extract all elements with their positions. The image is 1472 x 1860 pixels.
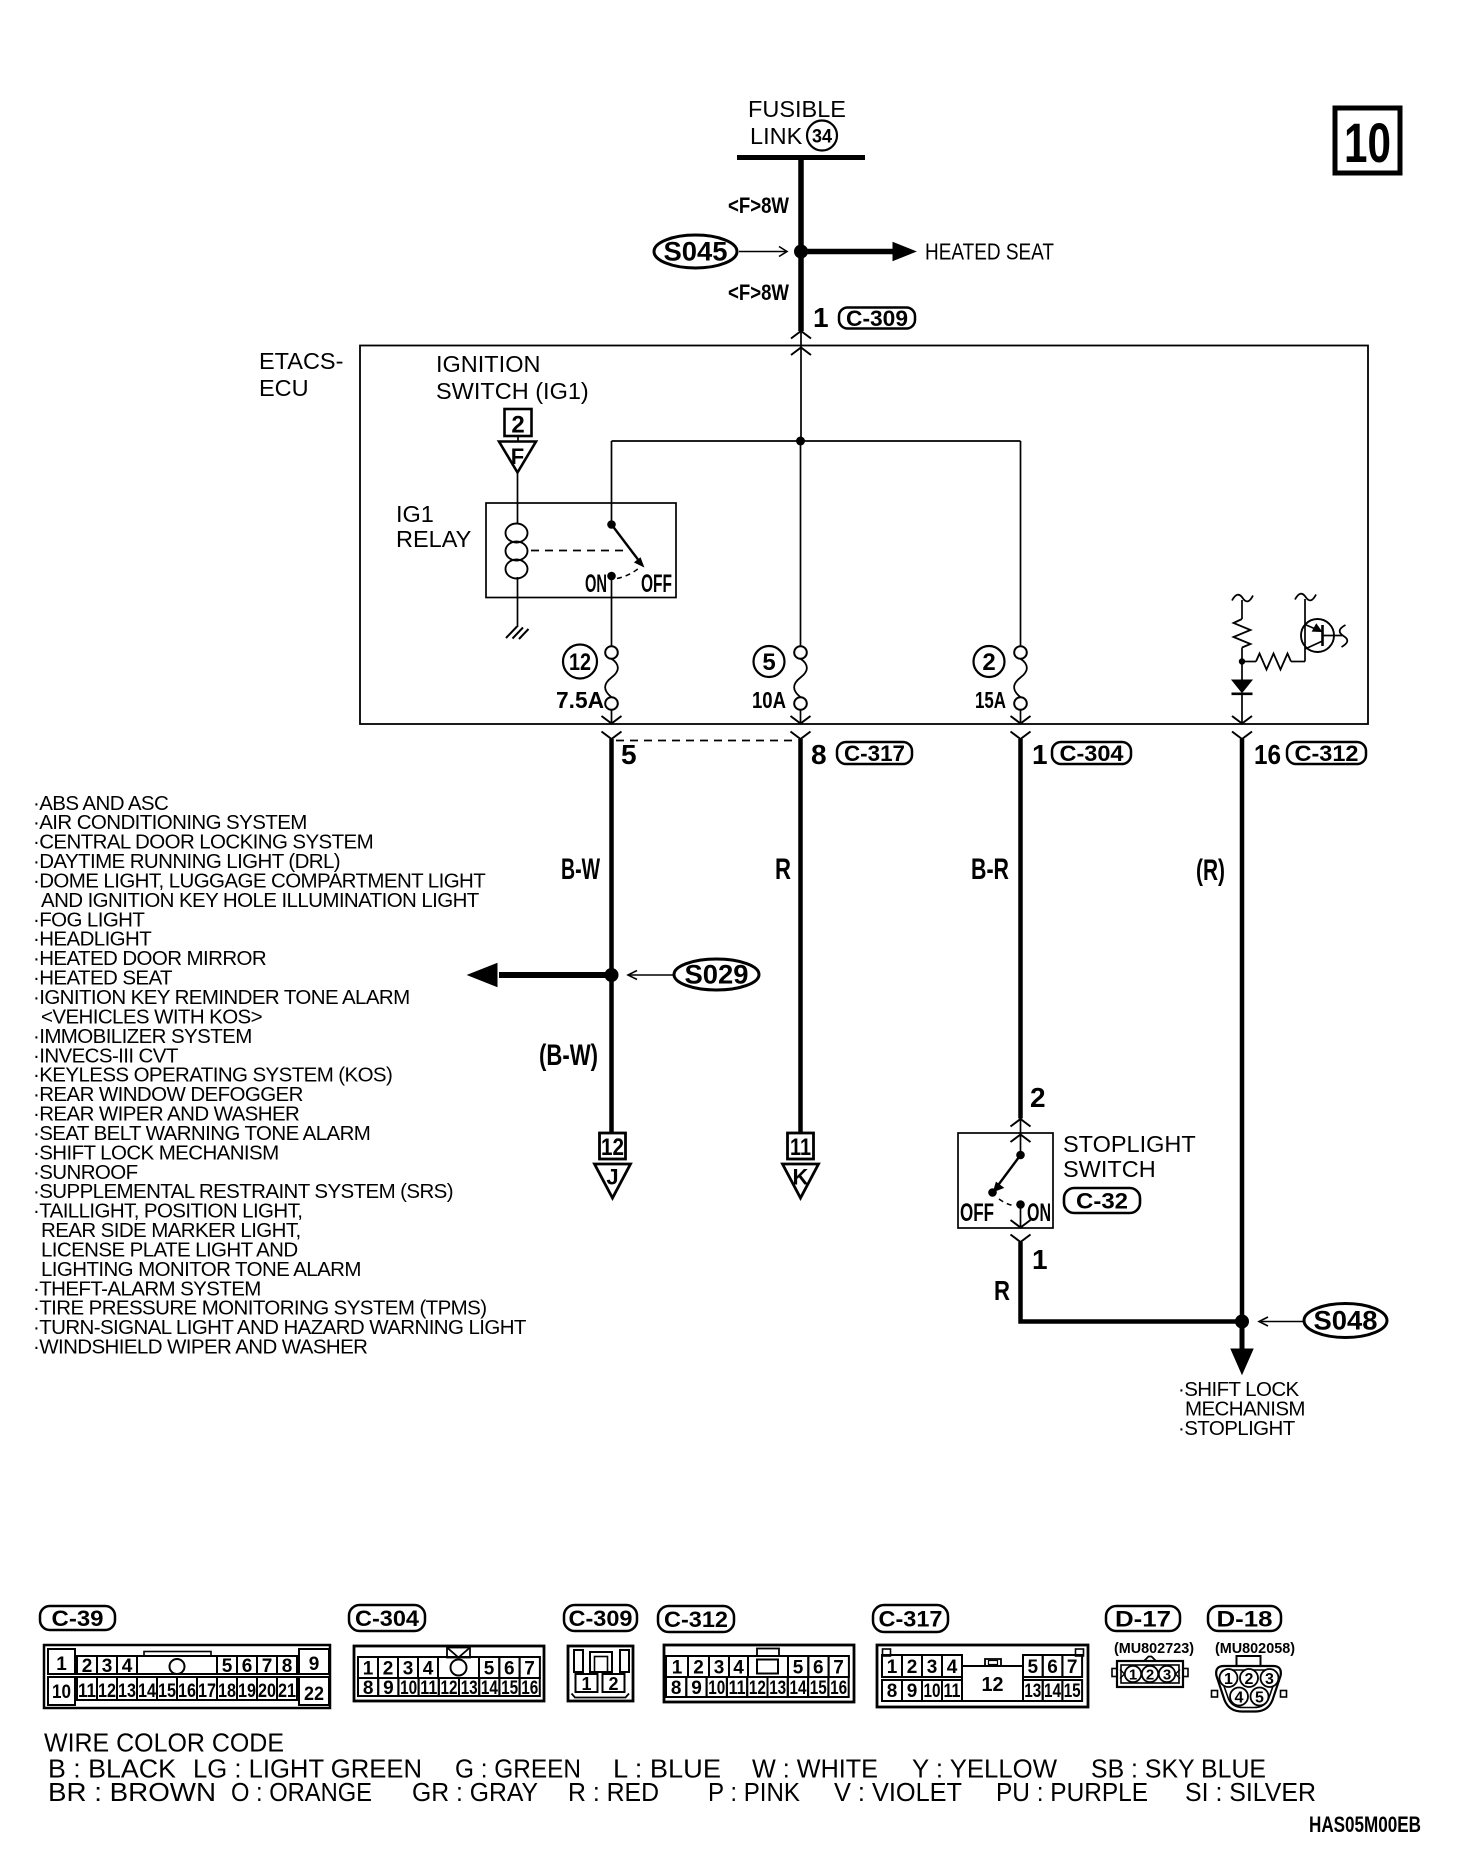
- svg-text:11: 11: [78, 1681, 96, 1702]
- svg-text:BR : BROWN: BR : BROWN: [48, 1779, 216, 1807]
- svg-text:D-17: D-17: [1115, 1606, 1171, 1631]
- transistor Q1 emitter diagonal with arrow: [1305, 625, 1319, 631]
- svg-text:OFF: OFF: [960, 1199, 994, 1227]
- splice label S029: [674, 959, 759, 990]
- svg-text:2: 2: [907, 1657, 918, 1678]
- svg-text:14: 14: [1044, 1681, 1061, 1702]
- svg-text:12: 12: [982, 1674, 1004, 1696]
- node dot base network: [1239, 658, 1245, 664]
- wire C-309 into ETACS box: [800, 331, 802, 441]
- svg-text:J: J: [606, 1165, 618, 1190]
- svg-text:6: 6: [242, 1656, 253, 1677]
- svg-text:19: 19: [238, 1681, 256, 1702]
- svg-text:3: 3: [1265, 1671, 1274, 1688]
- svg-text:15: 15: [1064, 1681, 1081, 1702]
- svg-text:S029: S029: [685, 960, 749, 990]
- connector C-317 pins 8-11: [882, 1680, 902, 1701]
- svg-text:15: 15: [501, 1678, 518, 1699]
- svg-text:RELAY: RELAY: [396, 526, 472, 552]
- connector D-17 body: [1112, 1669, 1117, 1677]
- svg-text:12: 12: [749, 1678, 766, 1699]
- relay IG1 box: [486, 503, 676, 598]
- svg-text:<F>8W: <F>8W: [728, 193, 789, 218]
- wire ON contact to pin 1: [1020, 1208, 1022, 1228]
- wire relay ON contact to fuse 12: [611, 580, 613, 647]
- svg-text:C-32: C-32: [1076, 1188, 1128, 1213]
- svg-text:(B-W): (B-W): [539, 1039, 598, 1072]
- svg-text:SI : SILVER: SI : SILVER: [1185, 1779, 1316, 1807]
- svg-text:10A: 10A: [752, 687, 786, 713]
- svg-text:ETACS-: ETACS-: [259, 348, 343, 374]
- svg-text:1: 1: [1032, 739, 1048, 770]
- arrow from S029 label to junction: [630, 974, 673, 976]
- svg-text:16: 16: [521, 1678, 538, 1699]
- svg-text:6: 6: [1047, 1657, 1058, 1678]
- fuse number circle 5: [754, 646, 785, 677]
- connector D-18 body: [1237, 1656, 1261, 1666]
- svg-text:12: 12: [601, 1134, 624, 1161]
- svg-text:12: 12: [441, 1678, 458, 1699]
- svg-text:C-309: C-309: [569, 1606, 633, 1631]
- svg-text:B-W: B-W: [561, 853, 600, 886]
- svg-text:5: 5: [1028, 1657, 1039, 1678]
- connector chevrons C-309: [791, 331, 811, 339]
- svg-text:S048: S048: [1314, 1306, 1378, 1336]
- connector C-317 pins 13-15: [1023, 1680, 1043, 1701]
- terminal box 12: [600, 1133, 626, 1159]
- connector C-309 body: [568, 1646, 633, 1701]
- svg-text:20: 20: [258, 1681, 276, 1702]
- connector chevrons stoplight switch entry: [1011, 1119, 1031, 1127]
- svg-text:8: 8: [671, 1678, 682, 1699]
- svg-text:C-304: C-304: [1060, 741, 1125, 766]
- fuse number circle 12: [563, 645, 597, 679]
- connector label C-304: [1052, 742, 1131, 764]
- wire B-R pin 1 down: [1018, 739, 1023, 1119]
- svg-text:1: 1: [1224, 1671, 1233, 1688]
- svg-text:1: 1: [56, 1654, 67, 1675]
- connector C-39 pins 11-21: [77, 1677, 97, 1700]
- svg-text:(MU802723): (MU802723): [1114, 1640, 1194, 1657]
- svg-text:9: 9: [907, 1681, 918, 1702]
- branch arrow left from splice S029: [499, 972, 612, 978]
- svg-text:<F>8W: <F>8W: [728, 280, 789, 305]
- svg-text:R : RED: R : RED: [568, 1779, 659, 1807]
- svg-text:C-304: C-304: [355, 1606, 420, 1631]
- svg-text:9: 9: [309, 1654, 320, 1675]
- fusible link bus bar: [737, 155, 865, 160]
- terminal triangle F: [517, 436, 519, 441]
- connector C-304 pins 1-4: [358, 1657, 378, 1678]
- connector chevrons stoplight switch exit: [1011, 1220, 1031, 1228]
- svg-text:3: 3: [714, 1658, 725, 1679]
- fuse 2 15A symbol: [1014, 646, 1027, 659]
- svg-text:F: F: [511, 444, 524, 469]
- svg-text:1: 1: [813, 302, 829, 333]
- connector C-304 body: [354, 1646, 544, 1701]
- svg-text:16: 16: [1254, 739, 1281, 770]
- svg-text:15: 15: [810, 1678, 827, 1699]
- svg-text:4: 4: [947, 1657, 958, 1678]
- connector C-312 label (bottom row): [658, 1606, 734, 1632]
- svg-text:C-317: C-317: [844, 741, 905, 766]
- diode D1: [1232, 680, 1252, 693]
- wire diode to pin 16: [1241, 694, 1243, 724]
- relay switch lever (OFF position): [612, 525, 639, 560]
- connector C-39 pin 22: [299, 1677, 329, 1705]
- svg-text:1: 1: [1129, 1667, 1137, 1684]
- svg-text:ECU: ECU: [259, 375, 309, 401]
- svg-text:10: 10: [1344, 111, 1391, 174]
- svg-text:2: 2: [1146, 1667, 1154, 1684]
- svg-text:WIRE COLOR CODE: WIRE COLOR CODE: [44, 1730, 284, 1758]
- connector C-317 body: [877, 1645, 1088, 1707]
- svg-text:(R): (R): [1196, 854, 1225, 887]
- svg-text:3: 3: [403, 1659, 414, 1680]
- svg-text:1: 1: [581, 1674, 591, 1694]
- connector C-317 corner notches: [883, 1649, 891, 1656]
- svg-text:11: 11: [729, 1678, 746, 1699]
- wire R pin 8 down: [798, 739, 803, 1133]
- connector C-39 pins 2-4: [77, 1656, 97, 1674]
- svg-text:2: 2: [1245, 1671, 1254, 1688]
- svg-text:2: 2: [383, 1659, 394, 1680]
- svg-text:8: 8: [811, 739, 827, 770]
- svg-text:HAS05M00EB: HAS05M00EB: [1309, 1812, 1421, 1837]
- svg-text:O : ORANGE: O : ORANGE: [231, 1779, 372, 1807]
- svg-text:1: 1: [887, 1657, 898, 1678]
- connector C-39 pin 10: [48, 1677, 75, 1705]
- junction dot S048: [1235, 1315, 1249, 1329]
- svg-text:7: 7: [833, 1658, 844, 1679]
- connector C-309 label (bottom row): [564, 1605, 637, 1631]
- connector C-304 pins 5-7: [479, 1657, 499, 1678]
- svg-text:13: 13: [769, 1678, 786, 1699]
- svg-text:8: 8: [363, 1678, 374, 1699]
- relay coil: [506, 524, 528, 543]
- svg-text:17: 17: [198, 1681, 216, 1702]
- connector C-312 pins 8-16: [666, 1677, 686, 1697]
- svg-text:GR : GRAY: GR : GRAY: [412, 1779, 538, 1807]
- connector D-17 pins 1-3: [1125, 1666, 1141, 1682]
- connector C-304 label: [349, 1605, 425, 1631]
- svg-text:V : VIOLET: V : VIOLET: [834, 1779, 962, 1807]
- terminal box 2 ignition switch: [505, 409, 532, 436]
- svg-text:K: K: [793, 1165, 809, 1190]
- svg-text:R: R: [994, 1275, 1010, 1306]
- svg-text:14: 14: [790, 1678, 807, 1699]
- svg-text:6: 6: [504, 1659, 515, 1680]
- svg-text:9: 9: [383, 1678, 394, 1699]
- svg-text:D-18: D-18: [1217, 1606, 1273, 1631]
- svg-text:·STOPLIGHT: ·STOPLIGHT: [1178, 1417, 1296, 1440]
- connector chevrons pin 5: [602, 716, 622, 724]
- svg-text:STOPLIGHT: STOPLIGHT: [1063, 1131, 1196, 1157]
- transistor Q1 base bar: [1321, 625, 1324, 646]
- relay ON contact dot: [607, 572, 616, 581]
- connector D-18 pins 1-5: [1220, 1669, 1238, 1687]
- svg-text:4: 4: [122, 1656, 133, 1677]
- connector C-312 key cell: [748, 1656, 788, 1677]
- internal break symbol above resistor R1: [1232, 595, 1253, 602]
- stoplight switch box: [958, 1133, 1053, 1228]
- svg-text:C-312: C-312: [664, 1607, 728, 1632]
- svg-text:S045: S045: [664, 237, 728, 267]
- connector C-312 pins 5-7: [788, 1656, 808, 1677]
- svg-text:15: 15: [158, 1681, 176, 1702]
- svg-text:1: 1: [672, 1658, 683, 1679]
- svg-text:18: 18: [218, 1681, 236, 1702]
- ground symbol: [506, 627, 517, 639]
- svg-text:13: 13: [1024, 1681, 1041, 1702]
- connector chevrons pin 1 C-304: [1011, 716, 1031, 724]
- wire to resistor R1: [1241, 600, 1243, 619]
- connector label C-317: [837, 742, 912, 764]
- connector C-309 pin 2: [603, 1674, 625, 1692]
- connector C-317 pins 1-4: [882, 1655, 902, 1677]
- svg-text:8: 8: [282, 1656, 293, 1677]
- wire into stoplight switch: [1020, 1119, 1022, 1155]
- page number box 10: [1335, 108, 1400, 173]
- fusible link number circle 34: [807, 121, 837, 151]
- svg-text:SWITCH: SWITCH: [1063, 1156, 1156, 1182]
- transistor Q1 base lead and break symbol: [1323, 635, 1343, 637]
- output arrow shift lock / stoplight: [1240, 1322, 1245, 1353]
- svg-text:3: 3: [1163, 1667, 1171, 1684]
- junction dot S045: [794, 245, 808, 259]
- svg-text:16: 16: [178, 1681, 196, 1702]
- connector C-309 bottom lip: [572, 1694, 630, 1698]
- relay dashed travel arc: [617, 568, 639, 579]
- connector label C-32: [1064, 1188, 1140, 1213]
- wire stoplight switch to splice S048: [1021, 1242, 1243, 1322]
- relay coil lead to ground: [517, 577, 519, 627]
- connector C-312 body: [664, 1645, 854, 1702]
- svg-text:HEATED SEAT: HEATED SEAT: [925, 239, 1054, 265]
- svg-text:10: 10: [52, 1682, 71, 1703]
- svg-text:7: 7: [524, 1659, 535, 1680]
- svg-text:C-317: C-317: [879, 1606, 943, 1631]
- svg-text:PU : PURPLE: PU : PURPLE: [996, 1779, 1148, 1807]
- svg-text:5: 5: [793, 1658, 804, 1679]
- svg-text:P : PINK: P : PINK: [708, 1779, 800, 1807]
- transistor Q1 collector-emitter line: [1304, 599, 1306, 662]
- svg-text:6: 6: [813, 1658, 824, 1679]
- connector D-17 key hatching: [1120, 1670, 1129, 1679]
- resistor R1 vertical: [1234, 619, 1251, 648]
- svg-text:5: 5: [621, 739, 637, 770]
- connector C-39 body: [44, 1645, 330, 1708]
- fuse 5 10A symbol: [794, 646, 807, 659]
- connector C-309 pin 1: [576, 1674, 598, 1692]
- svg-text:ON: ON: [585, 570, 607, 598]
- relay actuation dashed line: [531, 550, 629, 552]
- wire fusible link down to splice S045: [798, 157, 804, 331]
- svg-text:15A: 15A: [975, 687, 1006, 713]
- svg-text:4: 4: [423, 1659, 434, 1680]
- svg-text:C-39: C-39: [52, 1606, 104, 1631]
- svg-text:10: 10: [708, 1678, 725, 1699]
- svg-text:3: 3: [102, 1656, 113, 1677]
- svg-text:7.5A: 7.5A: [556, 687, 604, 713]
- terminal box 11: [788, 1133, 814, 1159]
- svg-text:R: R: [775, 853, 791, 886]
- internal bus wire horizontal: [612, 440, 1021, 442]
- wire resistor R1 to node: [1241, 648, 1243, 681]
- svg-text:2: 2: [608, 1674, 618, 1694]
- svg-text:8: 8: [887, 1681, 898, 1702]
- svg-text:11: 11: [944, 1681, 961, 1702]
- svg-text:(MU802058): (MU802058): [1215, 1640, 1295, 1657]
- svg-text:4: 4: [1235, 1690, 1244, 1707]
- svg-text:2: 2: [1030, 1082, 1046, 1113]
- connector C-39 pin 9: [299, 1649, 329, 1674]
- stoplight switch lever (OFF position): [998, 1155, 1021, 1186]
- terminal triangle K: [783, 1164, 819, 1198]
- wire bus down to fuse 2: [1020, 441, 1022, 647]
- connector C-317 pins 5-7: [1023, 1655, 1043, 1677]
- svg-text:12: 12: [98, 1681, 116, 1702]
- svg-text:LINK: LINK: [750, 123, 803, 149]
- connector label C-312: [1287, 742, 1366, 764]
- svg-text:1: 1: [363, 1659, 374, 1680]
- ETACS-ECU box: [360, 346, 1368, 725]
- connector D-18 label: [1208, 1606, 1281, 1631]
- stoplight switch common contact dot: [1016, 1151, 1025, 1160]
- svg-text:34: 34: [812, 127, 832, 148]
- wire fuse to pin 1 C-304: [1020, 710, 1022, 724]
- wire fuse to pin 8: [800, 710, 802, 724]
- svg-text:ON: ON: [1027, 1199, 1051, 1227]
- svg-text:14: 14: [138, 1681, 156, 1702]
- relay common contact dot: [607, 520, 616, 529]
- wire B-W pin 5 down: [609, 739, 614, 1133]
- svg-text:10: 10: [400, 1678, 417, 1699]
- terminal triangle J: [595, 1164, 631, 1198]
- splice label S045: [654, 235, 737, 268]
- connector C-304 key cell with circle: [438, 1657, 479, 1678]
- svg-text:13: 13: [461, 1678, 478, 1699]
- connector C-39 pins 5-8: [217, 1656, 237, 1674]
- connector chevrons pin 8: [791, 716, 811, 724]
- wire bus to relay common contact: [611, 441, 613, 521]
- connector C-39 key cell with circle: [137, 1656, 217, 1674]
- svg-text:12: 12: [569, 649, 591, 676]
- branch arrow to heated seat: [804, 249, 894, 255]
- svg-text:2: 2: [693, 1658, 704, 1679]
- transistor Q1 collector diagonal: [1305, 641, 1323, 649]
- svg-text:3: 3: [927, 1657, 938, 1678]
- svg-text:16: 16: [830, 1678, 847, 1699]
- connector label C-309: [839, 308, 915, 329]
- svg-text:2: 2: [511, 412, 524, 439]
- wire F terminal to relay coil: [517, 473, 519, 525]
- connector C-309 top lugs: [574, 1650, 583, 1672]
- connector C-317 label (bottom row): [873, 1605, 948, 1632]
- stoplight ON contact dot: [1016, 1200, 1025, 1209]
- svg-text:SWITCH (IG1): SWITCH (IG1): [436, 378, 589, 404]
- junction dot S029: [605, 968, 619, 982]
- connector C-304 key flag: [447, 1648, 470, 1658]
- svg-text:OFF: OFF: [641, 570, 672, 598]
- splice label S048: [1304, 1304, 1387, 1338]
- connector C-317 pin 12 wide cell: [962, 1666, 1023, 1701]
- connector C-317 pin 12 key lug: [985, 1659, 1001, 1666]
- internal break symbol above transistor Q1: [1295, 594, 1316, 601]
- svg-text:5: 5: [484, 1659, 495, 1680]
- svg-text:10: 10: [924, 1681, 941, 1702]
- svg-text:11: 11: [790, 1134, 811, 1161]
- svg-text:9: 9: [691, 1678, 702, 1699]
- wire fuse to pin 5: [611, 710, 613, 724]
- bus junction dot: [796, 437, 805, 446]
- svg-text:4: 4: [733, 1658, 744, 1679]
- stoplight dashed travel arc: [999, 1199, 1015, 1206]
- svg-text:B-R: B-R: [971, 853, 1009, 886]
- svg-text:5: 5: [222, 1656, 233, 1677]
- resistor R2 horizontal to transistor base: [1242, 661, 1256, 663]
- connector C-39 label: [40, 1606, 115, 1630]
- svg-text:C-312: C-312: [1295, 741, 1359, 766]
- svg-text:FUSIBLE: FUSIBLE: [748, 96, 846, 122]
- svg-text:22: 22: [304, 1684, 324, 1705]
- wire (R) pin 16 down: [1240, 739, 1245, 1322]
- fuse 12 7.5A symbol: [605, 646, 618, 659]
- svg-text:C-309: C-309: [846, 306, 908, 331]
- connector C-312 pins 1-4: [666, 1656, 688, 1677]
- svg-text:21: 21: [278, 1681, 296, 1702]
- connector C-39 pin 1: [48, 1649, 75, 1674]
- svg-text:5: 5: [762, 649, 775, 676]
- svg-text:1: 1: [1032, 1244, 1048, 1275]
- connector C-312 key lug: [757, 1649, 779, 1657]
- connector C-304 pins 8-16: [358, 1678, 378, 1696]
- svg-text:·WINDSHIELD WIPER AND WASHER: ·WINDSHIELD WIPER AND WASHER: [33, 1336, 367, 1359]
- connector chevrons pin 16 C-312: [1232, 716, 1252, 724]
- svg-text:5: 5: [1255, 1690, 1264, 1707]
- fuse number circle 2: [974, 646, 1005, 677]
- svg-text:2: 2: [982, 649, 995, 676]
- dashed tie line below box: [616, 740, 797, 742]
- svg-text:13: 13: [118, 1681, 136, 1702]
- arrow from S045 label to junction: [739, 251, 786, 253]
- svg-text:11: 11: [420, 1678, 437, 1699]
- svg-text:7: 7: [1067, 1657, 1078, 1678]
- svg-text:2: 2: [82, 1656, 93, 1677]
- svg-text:IGNITION: IGNITION: [436, 351, 540, 377]
- arrow from S048 label to junction: [1261, 1321, 1303, 1323]
- wire bus down to fuse 5: [800, 441, 802, 647]
- svg-text:IG1: IG1: [396, 501, 434, 527]
- svg-text:7: 7: [262, 1656, 273, 1677]
- connector D-17 label: [1106, 1606, 1180, 1631]
- svg-text:14: 14: [481, 1678, 498, 1699]
- transistor Q1 circle: [1301, 619, 1334, 652]
